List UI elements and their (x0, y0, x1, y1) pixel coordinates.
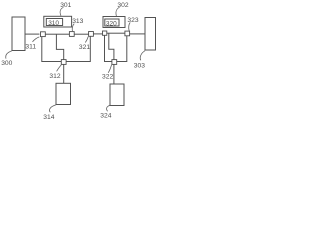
node square box2 top-left corner (103, 31, 107, 35)
leader 321 (85, 37, 88, 43)
svg-text:303: 303 (134, 63, 145, 70)
block 300 (left tall box) (12, 17, 25, 51)
svg-text:300: 300 (1, 60, 12, 67)
wire 322 down to block 324 (113, 62, 115, 85)
big box module 1 (42, 34, 91, 61)
leader 302 (116, 7, 120, 16)
svg-text:311: 311 (25, 44, 36, 51)
big box module 2 (105, 33, 127, 61)
leader 324 (107, 105, 111, 111)
leader 312 (57, 65, 62, 72)
node 311 (square pad, box1 top-left corner) (41, 32, 46, 37)
node 321 (square pad, box1 top-right corner) (89, 32, 94, 37)
svg-text:324: 324 (100, 113, 111, 120)
block 310 (inner labeled box) (46, 19, 62, 26)
leader 303 (140, 51, 145, 61)
leader 300 (6, 51, 12, 59)
block 324 (bottom box right) (110, 84, 124, 106)
wire 322 internal (jog) (109, 33, 114, 61)
svg-text:302: 302 (117, 2, 128, 9)
svg-text:301: 301 (60, 2, 71, 9)
leader 313 (72, 24, 74, 32)
svg-text:322: 322 (102, 74, 113, 81)
node 313 (square pad, box1 top edge) (69, 32, 74, 37)
block 320 (inner labeled box) (105, 19, 119, 26)
leader 311 (33, 37, 40, 42)
wire 312 internal (jog) (56, 34, 63, 61)
node 312 (square pad, box1 bottom edge) (61, 60, 66, 65)
wire node 321 to module 2 (90, 33, 104, 35)
leader 314 (49, 105, 56, 113)
wire 300 to node 311 (25, 33, 39, 35)
svg-text:314: 314 (43, 114, 54, 120)
svg-text:323: 323 (127, 17, 138, 24)
wire node 323 to block 303 (130, 33, 145, 35)
box 301 (upper box containing 310) (44, 16, 72, 27)
leader 322 (108, 65, 111, 73)
node 322 (square pad, box2 bottom edge) (112, 60, 117, 65)
svg-text:313: 313 (72, 18, 83, 25)
block 314 (bottom box left) (56, 83, 71, 104)
box 302 (upper box containing 320) (103, 17, 125, 28)
leader 323 (129, 22, 131, 31)
leader 301 (60, 7, 63, 16)
svg-text:321: 321 (79, 44, 90, 51)
wire 312 down to block 314 (63, 62, 65, 84)
svg-text:310: 310 (48, 20, 59, 27)
block 303 (right tall box) (145, 18, 156, 51)
svg-text:312: 312 (49, 73, 60, 80)
svg-text:320: 320 (106, 21, 117, 28)
node 323 (square pad, box2 top-right corner) (125, 31, 130, 36)
